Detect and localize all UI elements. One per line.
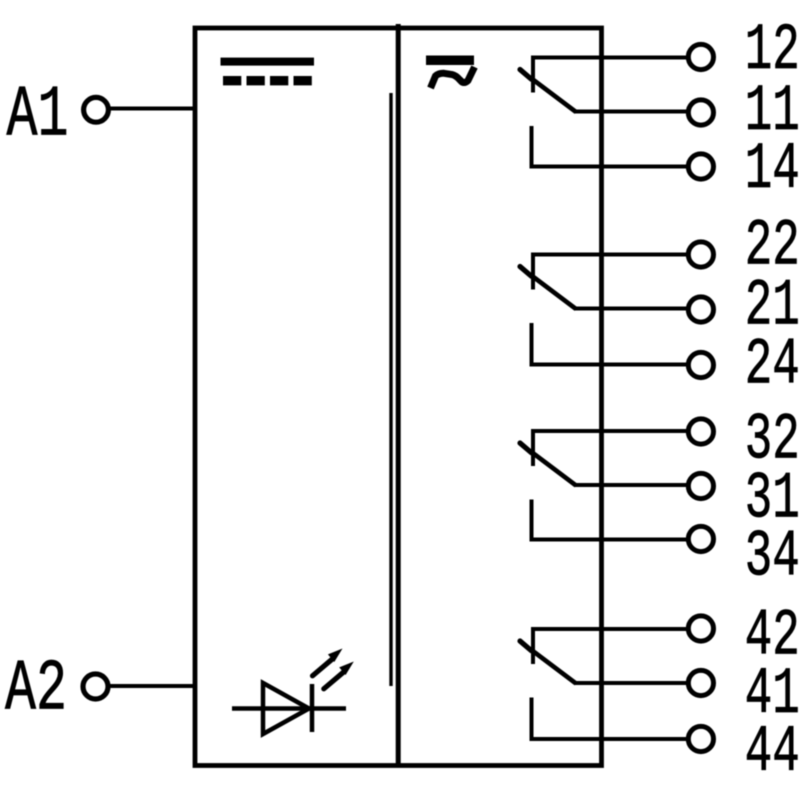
terminal 12 [688, 44, 713, 69]
wire to 42 [531, 627, 687, 631]
contact hinge vertical [531, 255, 535, 290]
LED light arrow 2 [324, 672, 344, 689]
contact hinge vertical [531, 431, 535, 466]
contact barb [520, 641, 532, 651]
wire A1 to coil [110, 107, 196, 111]
svg-text:24: 24 [745, 328, 800, 403]
NO contact vertical [530, 500, 534, 540]
svg-text:44: 44 [745, 715, 800, 790]
NO contact vertical [530, 126, 534, 167]
wire to 41 [575, 681, 687, 685]
terminal 44 [688, 726, 713, 751]
AC symbol (bar) [426, 56, 474, 66]
LED triangle [263, 683, 309, 734]
relay contact group 3 (32/31/34) [520, 403, 800, 595]
contact arm [532, 650, 577, 684]
svg-text:14: 14 [745, 132, 800, 207]
wire to 44 [530, 737, 688, 741]
terminal A1 [84, 97, 109, 122]
relay contact group 4 (42/41/44) [520, 598, 800, 790]
contact arm [532, 452, 577, 486]
LED indicator diode [232, 649, 354, 735]
wire to 22 [531, 253, 687, 257]
NO contact vertical [530, 698, 534, 740]
terminal 21 [688, 297, 713, 322]
svg-text:A1: A1 [7, 75, 69, 157]
wire A2 to coil [110, 684, 196, 688]
contact arm [532, 276, 577, 310]
terminal 32 [688, 419, 713, 444]
svg-text:34: 34 [745, 520, 800, 595]
contact barb [520, 267, 532, 277]
wire to 32 [531, 429, 687, 433]
contact barb [520, 70, 532, 80]
contact arm [532, 79, 577, 113]
terminal 41 [688, 670, 713, 695]
terminal 42 [688, 616, 713, 641]
relay contact group 2 (22/21/24) [520, 208, 800, 402]
divider between coil side and contact side [396, 24, 401, 766]
terminal 11 [688, 100, 713, 125]
wire to 24 [530, 363, 688, 367]
relay module body K1 [195, 28, 602, 766]
wire to 31 [575, 483, 687, 487]
terminal A2 [83, 674, 108, 699]
wire to 11 [575, 110, 687, 114]
terminal 24 [688, 352, 713, 377]
relay contact group 1 (12/11/14) [520, 13, 800, 207]
contact barb [520, 443, 532, 453]
LED light arrow 1 [313, 659, 333, 676]
wire to 12 [531, 56, 687, 60]
wire to 14 [530, 165, 688, 169]
wire to 21 [575, 307, 687, 311]
AC symbol (tilde) [431, 67, 475, 88]
NO contact vertical [530, 323, 534, 365]
terminal 22 [688, 242, 713, 267]
terminal 14 [688, 154, 713, 179]
DC symbol (solid bar) [221, 58, 315, 66]
wire to 34 [530, 538, 688, 542]
DC symbol (dashed bar) [223, 76, 312, 85]
LED anode/cathode wire [232, 706, 346, 711]
svg-text:A2: A2 [5, 649, 67, 731]
contact hinge vertical [531, 58, 535, 93]
terminal 31 [688, 473, 713, 498]
isolation barrier line [389, 93, 392, 686]
terminal 34 [688, 526, 713, 551]
contact hinge vertical [531, 629, 535, 664]
LED cathode bar [310, 684, 315, 732]
